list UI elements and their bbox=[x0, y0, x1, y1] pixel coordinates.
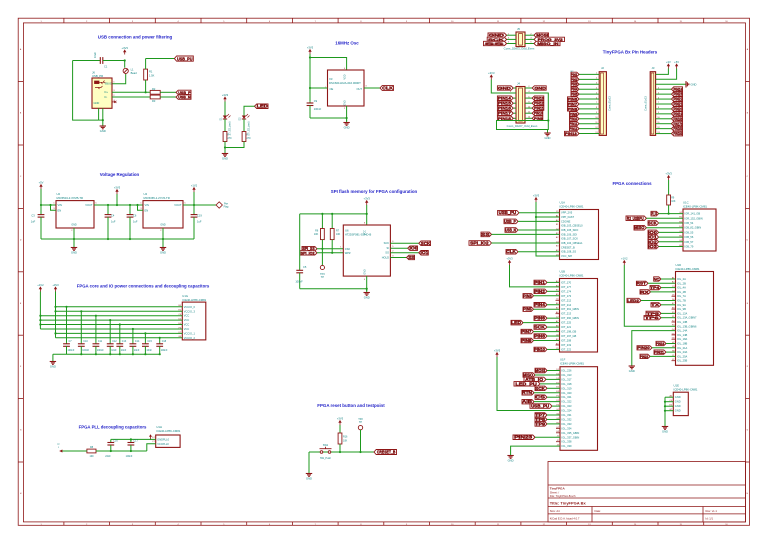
label PIN8 (U1B row 13) bbox=[534, 334, 547, 339]
resistor R1 bbox=[144, 69, 148, 80]
label PIN15b (J3) bbox=[672, 131, 683, 136]
label LED_PU (U1F row 4) bbox=[514, 382, 540, 387]
svg-text:1uF: 1uF bbox=[31, 220, 36, 224]
capacitor C7 bbox=[66, 307, 68, 343]
junction +5V/C3 bbox=[40, 204, 42, 206]
svg-text:ICE40-LP8K-CM81: ICE40-LP8K-CM81 bbox=[674, 387, 698, 391]
svg-text:MOSI: MOSI bbox=[535, 368, 545, 373]
svg-text:GND: GND bbox=[691, 82, 697, 86]
junction C15 top bbox=[144, 332, 146, 334]
svg-text:IOL_7B: IOL_7B bbox=[677, 299, 686, 303]
svg-text:GND: GND bbox=[364, 269, 367, 275]
label LED (U1B row 10) bbox=[511, 320, 523, 325]
svg-text:+1V2: +1V2 bbox=[37, 283, 44, 287]
wire J4 right row 1 bbox=[525, 87, 532, 89]
wire U1F row 1 bbox=[547, 370, 560, 372]
svg-text:100: 100 bbox=[90, 455, 95, 458]
svg-text:10uF: 10uF bbox=[93, 52, 97, 58]
svg-text:IOL_14B: IOL_14B bbox=[677, 333, 688, 337]
svg-text:+1V2: +1V2 bbox=[621, 256, 628, 260]
power +3V3 (U1C) bbox=[668, 177, 670, 180]
wire U1A row1 bbox=[519, 212, 560, 214]
label IO3 (U1C row 8) bbox=[648, 244, 659, 249]
junction J4 loop bbox=[547, 119, 549, 121]
svg-text:10nF: 10nF bbox=[134, 349, 140, 352]
svg-text:Size: A4: Size: A4 bbox=[550, 509, 560, 513]
junction U1E bus 2 bbox=[664, 405, 666, 407]
capacitor C14 bbox=[132, 329, 134, 343]
label PIN7 (J2) bbox=[568, 102, 580, 106]
wire J2 row 3 bbox=[579, 83, 599, 85]
svg-text:16MHz Osc: 16MHz Osc bbox=[335, 41, 359, 46]
wire U1D row 17 bbox=[652, 347, 676, 349]
svg-text:270: 270 bbox=[247, 137, 252, 140]
wire U1F row 4 bbox=[540, 383, 560, 385]
svg-text:IOB_104_CBSEL1: IOB_104_CBSEL1 bbox=[561, 241, 583, 245]
svg-text:SS: SS bbox=[408, 255, 415, 260]
wire U1A row6 bbox=[492, 233, 560, 235]
junction R6/CS bbox=[321, 248, 323, 250]
svg-text:R3: R3 bbox=[152, 99, 156, 103]
svg-text:IOL_331: IOL_331 bbox=[562, 413, 573, 417]
wire J3 pin2 to +5V bbox=[656, 69, 677, 80]
wire U2 GND stub bbox=[73, 228, 75, 245]
power +3V3 (USB section) bbox=[124, 51, 126, 54]
label PIN21 (J3) bbox=[672, 102, 683, 107]
svg-text:CRESET_B: CRESET_B bbox=[377, 450, 396, 455]
wire PLL top line bbox=[111, 438, 156, 440]
svg-text:IOL_9A: IOL_9A bbox=[677, 303, 686, 307]
wire U1B row 13 bbox=[547, 335, 560, 337]
svg-text:10K: 10K bbox=[671, 200, 676, 203]
junction C13 top bbox=[119, 323, 121, 325]
svg-text:IOL_18A: IOL_18A bbox=[677, 337, 688, 341]
junction R16/reset bbox=[339, 451, 341, 453]
svg-text:IOL_337_GBIN: IOL_337_GBIN bbox=[562, 435, 580, 439]
wire J4 right row 7 bbox=[525, 117, 532, 119]
svg-text:IOL_18B: IOL_18B bbox=[677, 342, 688, 346]
svg-text:SCK: SCK bbox=[534, 325, 545, 330]
svg-text:TinyFPGA Bx Pin Headers: TinyFPGA Bx Pin Headers bbox=[603, 50, 658, 55]
label USB_PU bbox=[174, 56, 193, 61]
junction C15 bottom bbox=[144, 353, 146, 355]
svg-text:NC: NC bbox=[653, 276, 659, 281]
push button SW1 bbox=[320, 451, 323, 454]
capacitor C5 bbox=[299, 214, 301, 270]
svg-text:GND: GND bbox=[343, 100, 346, 106]
power +3V3 (osc) bbox=[309, 51, 311, 54]
svg-text:C6: C6 bbox=[133, 214, 137, 218]
svg-text:IOT_173: IOT_173 bbox=[561, 294, 572, 298]
wire J4 pin4 to gnd loop bbox=[497, 93, 549, 130]
label PIN5 (U1B row 7) bbox=[523, 307, 534, 312]
label CLK bbox=[380, 86, 394, 91]
wire U1D row 16 bbox=[666, 343, 676, 345]
wire J5 pin 5 bbox=[507, 43, 516, 45]
svg-text:LED: LED bbox=[257, 104, 268, 109]
wire J2 row 4 bbox=[579, 88, 599, 90]
svg-text:GND: GND bbox=[100, 129, 106, 133]
USB connector J6 bbox=[92, 78, 112, 108]
wire R16 to reset net bbox=[339, 444, 341, 452]
ground (U1F) bbox=[510, 453, 512, 456]
svg-text:Conn_02x03_Odd_Even: Conn_02x03_Odd_Even bbox=[504, 47, 535, 51]
wire U1C row 8 bbox=[659, 246, 683, 248]
regulator U2 bbox=[56, 201, 94, 228]
wire core power line 4 bbox=[40, 319, 182, 321]
svg-text:C19: C19 bbox=[197, 214, 202, 218]
capacitor C15 bbox=[144, 333, 146, 342]
svg-text:VIN: VIN bbox=[58, 203, 62, 207]
label PIN18 (J4 left) bbox=[497, 116, 513, 120]
svg-text:SW1: SW1 bbox=[323, 444, 329, 447]
label PIN17b (J3) bbox=[672, 121, 683, 126]
pin stub U1D row 20 bbox=[672, 360, 676, 362]
wire U1B row 9 bbox=[547, 317, 560, 319]
label SPI_IO3 bbox=[407, 255, 415, 260]
svg-text:VCC: VCC bbox=[184, 314, 190, 318]
wire J3 row 7 bbox=[656, 103, 672, 105]
svg-text:+3V: +3V bbox=[666, 60, 671, 64]
svg-text:IOL_324: IOL_324 bbox=[562, 409, 573, 413]
ground (osc) bbox=[346, 120, 348, 123]
wire J4 right row 3 bbox=[525, 97, 532, 99]
wire PLL bottom line bbox=[61, 450, 87, 452]
svg-text:270: 270 bbox=[228, 137, 233, 140]
svg-text:C18: C18 bbox=[162, 340, 167, 343]
wire J3 row 8 bbox=[656, 108, 672, 110]
wire U1F row 5 bbox=[547, 387, 560, 389]
svg-text:IOL_14A: IOL_14A bbox=[677, 329, 688, 333]
pin stub U1B row 15 bbox=[556, 344, 560, 346]
junction core power bbox=[39, 315, 41, 317]
svg-text:ICE40-LP8K-CM81: ICE40-LP8K-CM81 bbox=[683, 204, 707, 208]
svg-text:EN: EN bbox=[58, 209, 62, 213]
wire J4 left row 5 bbox=[513, 107, 516, 109]
label USB_N (U1A) bbox=[505, 228, 518, 233]
wire U1F row 12 bbox=[547, 418, 560, 420]
svg-text:ICE40-LP8K-CM81: ICE40-LP8K-CM81 bbox=[560, 362, 584, 366]
svg-text:+3V3: +3V3 bbox=[494, 348, 501, 352]
svg-text:IOL_7A: IOL_7A bbox=[677, 294, 686, 298]
svg-text:USB_PU: USB_PU bbox=[177, 56, 193, 62]
svg-text:TinyFPGA: TinyFPGA bbox=[550, 487, 566, 491]
label RX (U1D row 4) bbox=[640, 290, 651, 294]
wire J2 row 7 bbox=[579, 103, 599, 105]
label PIN10 (J4 right) bbox=[532, 111, 543, 115]
svg-text:USB_PR: USB_PR bbox=[92, 74, 103, 78]
ground (U4) bbox=[162, 245, 164, 248]
svg-text:IO0: IO0 bbox=[409, 246, 418, 251]
svg-text:CS: CS bbox=[535, 395, 545, 400]
svg-text:OUT: OUT bbox=[357, 87, 363, 91]
wire +3V3 to flash VCC bbox=[366, 205, 368, 225]
junction R6 top bbox=[321, 213, 323, 215]
flash memory U6 bbox=[343, 225, 390, 276]
label USB_PU (U1A) bbox=[498, 210, 519, 215]
wire U1D row 4 bbox=[651, 291, 676, 293]
junction flash vcc rail bbox=[366, 213, 368, 215]
svg-text:C15: C15 bbox=[147, 340, 152, 343]
ferrite bead L1 bbox=[123, 68, 128, 73]
label SCK (J5 left row 2) bbox=[487, 37, 506, 41]
svg-text:IOL_23A: IOL_23A bbox=[677, 350, 688, 354]
svg-text:KiCad E.D.A. kicad 4.0.7: KiCad E.D.A. kicad 4.0.7 bbox=[550, 516, 580, 520]
wire J2 row 1 bbox=[579, 73, 599, 75]
svg-text:IOL_226: IOL_226 bbox=[562, 369, 573, 373]
label PIN4 (J2) bbox=[571, 87, 579, 91]
wire D- net bbox=[112, 96, 150, 98]
svg-text:IOL_9B: IOL_9B bbox=[677, 307, 686, 311]
svg-text:J3: J3 bbox=[652, 66, 655, 70]
wire J2 row 12 bbox=[579, 128, 599, 130]
svg-text:GND: GND bbox=[545, 136, 551, 140]
svg-text:ICE40-LP8K-CM81: ICE40-LP8K-CM81 bbox=[182, 298, 206, 302]
wire U1F row 13 bbox=[547, 423, 560, 425]
svg-text:GND: GND bbox=[534, 85, 546, 90]
wire U1B row 4 bbox=[534, 295, 560, 297]
junction U1E bus 3 bbox=[664, 410, 666, 412]
wire flash SCK to label bbox=[390, 242, 418, 244]
svg-text:IOT_361_GBIN: IOT_361_GBIN bbox=[561, 307, 579, 311]
svg-text:USB_P: USB_P bbox=[504, 219, 516, 224]
capacitor C16 bbox=[110, 439, 112, 442]
junction core power bbox=[54, 310, 56, 312]
ground (USB section) bbox=[102, 123, 104, 126]
svg-text:GND: GND bbox=[94, 101, 100, 105]
wire J3 pin3 to GND bbox=[656, 83, 686, 85]
svg-text:IOL_317: IOL_317 bbox=[562, 377, 573, 381]
test point TP3 bbox=[321, 249, 323, 266]
wire J2 row 11 bbox=[579, 123, 599, 125]
wire J3 row 12 bbox=[656, 128, 672, 130]
junction PLL top bbox=[130, 438, 132, 440]
wire U1B row 6 bbox=[547, 304, 560, 306]
svg-text:C11: C11 bbox=[98, 340, 103, 343]
svg-text:IOT_219: IOT_219 bbox=[561, 343, 572, 347]
wire J5 pin 2 bbox=[525, 34, 534, 36]
svg-text:PIN22: PIN22 bbox=[640, 354, 649, 359]
FPGA PLL bank U1H (iCE40-LP8K-CM81) bbox=[156, 435, 180, 447]
svg-text:FPGA reset button and testpoin: FPGA reset button and testpoint bbox=[317, 403, 385, 408]
label RTN (U1F row 6) bbox=[522, 391, 534, 396]
svg-text:GND: GND bbox=[675, 409, 681, 413]
svg-text:10nF: 10nF bbox=[111, 349, 117, 352]
svg-text:J5: J5 bbox=[517, 27, 520, 31]
wire J3 row 13 bbox=[656, 133, 672, 135]
junction C7 top bbox=[65, 306, 67, 308]
wire USB ground loop bbox=[73, 61, 99, 121]
wire flash SI to label bbox=[390, 247, 407, 249]
svg-text:IOL_25A: IOL_25A bbox=[677, 354, 688, 358]
wire U1A row3 bbox=[518, 220, 560, 222]
svg-text:+3V3: +3V3 bbox=[665, 171, 672, 175]
wire U1D row 2 bbox=[648, 282, 676, 284]
wire J2 row 8 bbox=[579, 108, 599, 110]
svg-text:IOL_333: IOL_333 bbox=[562, 422, 573, 426]
svg-text:DSC6011JI2A-016.0000T: DSC6011JI2A-016.0000T bbox=[329, 81, 361, 85]
resistor R3 bbox=[150, 95, 160, 99]
wire U1D row 3 bbox=[661, 287, 676, 289]
wire +3V3 to U1B row2 bbox=[510, 265, 560, 287]
svg-text:C1: C1 bbox=[104, 65, 108, 69]
wire J5 pin 4 bbox=[525, 38, 534, 40]
wire R1 to USB_PU label bbox=[146, 58, 175, 60]
label SS (J5 left row 3) bbox=[484, 41, 507, 45]
pin stub U1D row 11 bbox=[672, 321, 676, 323]
wire +1V2 vertical (core) bbox=[39, 292, 41, 330]
label PIN19 (U1D row 16) bbox=[656, 341, 666, 345]
svg-text:+3V3: +3V3 bbox=[506, 256, 513, 260]
svg-text:IOT_360_GBIN: IOT_360_GBIN bbox=[561, 316, 579, 320]
svg-text:FPGA core and IO power connect: FPGA core and IO power connections and d… bbox=[77, 283, 210, 288]
label PIN16 (J4 left) bbox=[497, 106, 513, 110]
svg-text:SO: SO bbox=[385, 251, 389, 255]
svg-text:IOT_213: IOT_213 bbox=[561, 312, 572, 316]
label TP8 (U1F row 12) bbox=[535, 417, 547, 422]
svg-text:LED_PU: LED_PU bbox=[515, 381, 536, 386]
svg-text:SI: SI bbox=[387, 246, 390, 250]
FPGA ground bank U1E (iCE40-LP8K-CM81) bbox=[673, 392, 688, 415]
label USB_PU (U1F row 9) bbox=[530, 404, 552, 409]
label SPI_IO0 bbox=[408, 246, 418, 251]
pin stub U1D row 8 bbox=[672, 308, 676, 310]
svg-text:IOR_141_GB: IOR_141_GB bbox=[685, 212, 701, 216]
resistor R5 bbox=[242, 132, 246, 142]
svg-text:J4: J4 bbox=[517, 82, 520, 86]
junction OE bbox=[309, 87, 311, 89]
label CLK (U1A) bbox=[506, 249, 518, 254]
svg-text:D+: D+ bbox=[105, 90, 109, 94]
svg-text:100nF: 100nF bbox=[295, 280, 303, 284]
wire reset net bbox=[309, 451, 374, 453]
wire J2 row 2 bbox=[579, 78, 599, 80]
label PIN23 (J3) bbox=[672, 92, 683, 97]
svg-text:PIN23: PIN23 bbox=[514, 435, 533, 440]
wire U1D row 6 bbox=[641, 300, 676, 302]
svg-text:IOT_208: IOT_208 bbox=[561, 339, 572, 343]
svg-text:VOUT: VOUT bbox=[174, 203, 182, 207]
svg-text:SCK: SCK bbox=[648, 221, 657, 226]
capacitor C12 bbox=[109, 320, 111, 343]
wire +3V3 to U1F row10 bbox=[497, 357, 560, 411]
svg-text:10K: 10K bbox=[314, 233, 319, 236]
svg-text:RTN: RTN bbox=[522, 390, 532, 395]
svg-text:PIN19: PIN19 bbox=[656, 341, 665, 346]
label PIN23 (U1F row 16) bbox=[513, 435, 535, 440]
svg-text:GND: GND bbox=[222, 157, 228, 161]
label PIN10 (U1B row 16) bbox=[534, 347, 547, 352]
wire flash HOLD to label bbox=[390, 257, 406, 259]
svg-text:GND: GND bbox=[160, 224, 166, 227]
label SCK (U1C row 3) bbox=[648, 221, 659, 226]
wire core power line 7 bbox=[56, 332, 183, 334]
svg-text:C14: C14 bbox=[135, 340, 140, 343]
wire flash gnd rail bbox=[300, 288, 367, 290]
label CS (U1F row 7) bbox=[535, 395, 547, 400]
svg-text:PIN1: PIN1 bbox=[534, 280, 545, 285]
label SPI_IO1 bbox=[419, 251, 429, 256]
wire flash GND stub bbox=[366, 276, 368, 291]
svg-text:MIC5504-3.3YM5-TR: MIC5504-3.3YM5-TR bbox=[57, 196, 84, 200]
svg-text:C5: C5 bbox=[303, 265, 307, 269]
label PIN7 (U1B row 12) bbox=[521, 329, 534, 334]
svg-text:IOB_56: IOB_56 bbox=[685, 235, 694, 239]
svg-text:IOB_103_CBSEL0: IOB_103_CBSEL0 bbox=[561, 224, 583, 228]
wire J4 left row 4 bbox=[513, 102, 516, 104]
junction C18 top bbox=[159, 337, 161, 339]
svg-text:22nF: 22nF bbox=[105, 455, 111, 458]
svg-text:C9: C9 bbox=[314, 99, 318, 103]
wire +3V3 to J4 pin 3 bbox=[491, 80, 516, 94]
capacitor C9 bbox=[309, 101, 311, 103]
svg-text:PIN4: PIN4 bbox=[534, 302, 545, 307]
capacitor C4 bbox=[107, 205, 109, 215]
junction U1E bus 1 bbox=[664, 401, 666, 403]
label ATB_IO (U1F row 3) bbox=[524, 377, 546, 382]
svg-text:IOT_170: IOT_170 bbox=[561, 280, 572, 284]
svg-text:R2: R2 bbox=[152, 87, 156, 91]
wire R9 to U1C row1 bbox=[668, 205, 670, 214]
svg-text:C3: C3 bbox=[31, 214, 35, 218]
wire J3 row 4 bbox=[656, 88, 672, 90]
ground (core) bbox=[52, 359, 54, 362]
wire U2 VOUT rail to U4 VIN bbox=[94, 204, 143, 206]
wire U4 EN tie bbox=[138, 205, 144, 210]
wire D2 to R5 bbox=[243, 119, 245, 132]
svg-text:VCCIO_3: VCCIO_3 bbox=[184, 309, 196, 313]
svg-text:ICE40-LP8K-CM81: ICE40-LP8K-CM81 bbox=[560, 273, 584, 277]
label PIN21 (U1D row 18) bbox=[654, 350, 666, 354]
label PIN12 (J2) bbox=[570, 126, 580, 130]
wire U1E gnd bus bbox=[665, 396, 673, 398]
svg-text:PIN6: PIN6 bbox=[534, 316, 545, 321]
wire R6 to CS net bbox=[321, 240, 323, 249]
svg-text:IOL_313: IOL_313 bbox=[562, 373, 573, 377]
label GND (J4 left) bbox=[497, 86, 513, 90]
svg-text:IOL_25B: IOL_25B bbox=[677, 359, 688, 363]
svg-text:IOL_2A: IOL_2A bbox=[677, 277, 686, 281]
label R2_USBPU (U1C row 2) bbox=[626, 216, 646, 221]
junction TP2/reset bbox=[359, 451, 361, 453]
label PIN18b (J3) bbox=[672, 116, 683, 121]
ground (U1D) bbox=[631, 363, 633, 366]
svg-text:1uF: 1uF bbox=[197, 220, 202, 224]
wire J5 pin 6 bbox=[525, 43, 534, 45]
FPGA bank U1B (iCE40-LP8K-CM81) bbox=[560, 279, 598, 353]
wire core gnd stem bbox=[52, 354, 54, 359]
power +3V3 (regulator mid) bbox=[116, 191, 118, 194]
junction osc gnd bbox=[346, 117, 348, 119]
wire reset to gnd bbox=[308, 452, 310, 471]
wire +3V3 to osc VDD bbox=[310, 54, 347, 70]
svg-text:GND: GND bbox=[508, 459, 514, 463]
pin stub U1F row 15 bbox=[556, 432, 560, 434]
svg-text:100nF: 100nF bbox=[82, 349, 89, 352]
power +1V2 (core) bbox=[39, 288, 41, 291]
svg-text:IOL_12A: IOL_12A bbox=[677, 311, 688, 315]
junction C10 bottom bbox=[80, 353, 82, 355]
label USB_P bbox=[176, 90, 191, 94]
label PIN22 (J3) bbox=[672, 97, 683, 102]
LED D1 bbox=[223, 116, 227, 120]
wire U4 GND stub bbox=[162, 228, 164, 245]
svg-text:SPI flash memory for FPGA conf: SPI flash memory for FPGA configuration bbox=[331, 189, 418, 194]
power +5V (regulator input) bbox=[40, 186, 42, 189]
pin stub U1F row 17 bbox=[556, 441, 560, 443]
capacitor C6 bbox=[129, 205, 131, 215]
capacitor C19 bbox=[193, 205, 195, 215]
